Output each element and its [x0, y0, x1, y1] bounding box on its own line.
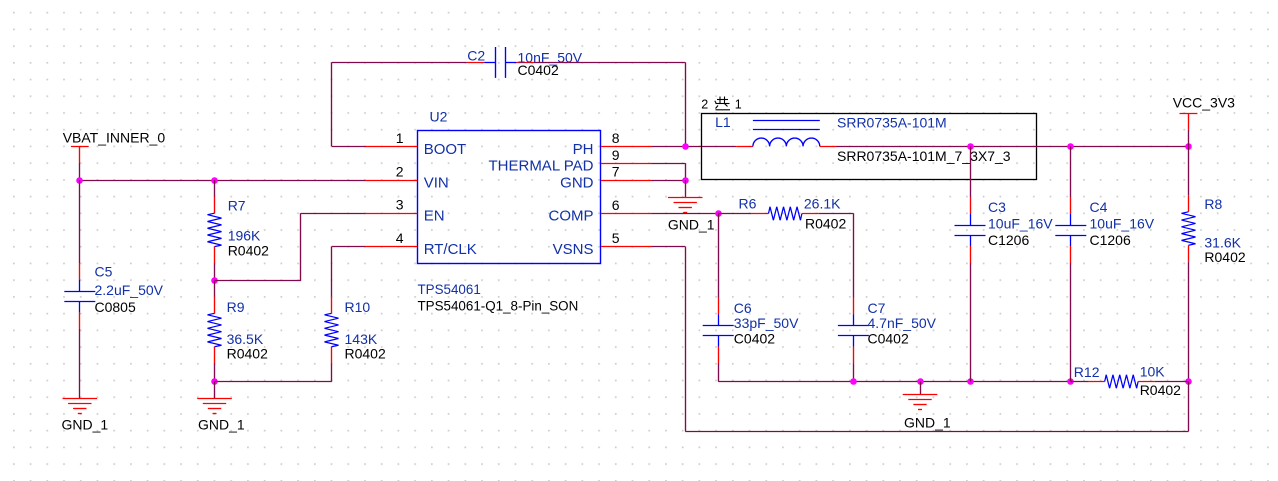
svg-text:TPS54061: TPS54061: [418, 282, 481, 297]
junction: [967, 378, 974, 385]
svg-text:RT/CLK: RT/CLK: [424, 241, 477, 258]
capacitor C3: [955, 197, 1054, 263]
junction: [211, 277, 218, 284]
wire: [853, 364, 855, 382]
wire: [79, 329, 81, 398]
svg-text:2: 2: [396, 163, 404, 179]
pin 3: [366, 197, 418, 214]
pin 1: [366, 130, 418, 147]
wire: [970, 146, 972, 197]
svg-text:R9: R9: [227, 299, 245, 315]
svg-text:COMP: COMP: [549, 208, 594, 225]
svg-text:C0805: C0805: [95, 299, 136, 315]
svg-text:C0402: C0402: [868, 331, 909, 347]
svg-text:C0402: C0402: [518, 62, 559, 78]
wire: [80, 180, 366, 182]
svg-text:3: 3: [396, 197, 404, 213]
wire: [970, 263, 972, 382]
wire: [214, 263, 216, 281]
svg-text:R8: R8: [1204, 196, 1222, 212]
wire: [1155, 381, 1189, 383]
wire: [718, 213, 720, 297]
svg-text:GND: GND: [560, 174, 594, 191]
svg-text:5: 5: [612, 230, 620, 246]
wire: [214, 180, 216, 197]
ground: [197, 399, 245, 433]
wire: [819, 213, 854, 215]
svg-text:C2: C2: [467, 48, 485, 64]
ground: [62, 399, 109, 433]
svg-text:4.7nF_50V: 4.7nF_50V: [868, 315, 937, 331]
svg-text:R0402: R0402: [1204, 249, 1245, 265]
svg-text:EN: EN: [424, 208, 445, 225]
wire: [1070, 146, 1072, 197]
wire: [1188, 262, 1190, 382]
wire: [301, 213, 366, 215]
wire: [534, 62, 685, 64]
capacitor C4: [1055, 197, 1154, 263]
resistor R7: [208, 197, 270, 264]
junction: [76, 177, 83, 184]
svg-text:10uF_16V: 10uF_16V: [1090, 215, 1155, 231]
wire: [685, 247, 687, 432]
pin 2: [366, 163, 418, 180]
svg-text:U2: U2: [430, 109, 448, 125]
ground: [668, 198, 715, 233]
wire: [1070, 263, 1072, 382]
svg-text:R0402: R0402: [228, 242, 269, 258]
wire: [718, 381, 1071, 383]
wire: [332, 246, 366, 248]
power port VBAT_INNER_0: [63, 130, 166, 164]
capacitor C7: [838, 298, 937, 364]
wire: [837, 146, 1189, 148]
svg-text:1: 1: [396, 130, 404, 146]
svg-text:VCC_3V3: VCC_3V3: [1173, 95, 1235, 111]
svg-text:33pF_50V: 33pF_50V: [734, 315, 799, 331]
wire: [685, 163, 687, 180]
capacitor C6: [703, 298, 799, 364]
junction: [917, 378, 924, 385]
wire: [331, 62, 333, 146]
wire: [1188, 146, 1190, 195]
svg-text:R12: R12: [1074, 364, 1100, 380]
svg-text:R0402: R0402: [345, 345, 386, 361]
svg-text:C5: C5: [95, 264, 113, 280]
capacitor C2: [467, 47, 583, 78]
junction: [850, 378, 857, 385]
svg-text:4: 4: [396, 230, 404, 246]
wire: [1071, 381, 1088, 383]
selection box 2-choose-1: [701, 97, 1036, 180]
svg-text:R7: R7: [228, 197, 246, 213]
resistor R9: [208, 297, 269, 364]
svg-text:R0402: R0402: [227, 345, 268, 361]
svg-text:2: 2: [701, 98, 708, 112]
svg-text:SRR0735A-101M: SRR0735A-101M: [837, 115, 947, 131]
svg-text:C1206: C1206: [988, 232, 1029, 248]
svg-text:6: 6: [612, 197, 620, 213]
pin 8: [601, 130, 652, 147]
inductor L1: [715, 114, 1011, 164]
svg-text:SRR0735A-101M_7_3X7_3: SRR0735A-101M_7_3X7_3: [837, 148, 1011, 164]
svg-text:C7: C7: [868, 300, 886, 316]
wire: [718, 364, 720, 382]
svg-text:R6: R6: [739, 196, 757, 212]
svg-text:GND_1: GND_1: [904, 415, 951, 431]
wire: [215, 381, 332, 383]
capacitor C5: [64, 263, 163, 329]
junction: [1185, 378, 1192, 385]
wire: [685, 431, 1188, 433]
wire: [332, 146, 366, 148]
junction: [211, 378, 218, 385]
pin 4: [366, 230, 418, 246]
svg-text:PH: PH: [573, 141, 594, 158]
wire: [79, 180, 81, 263]
wire: [652, 213, 719, 215]
svg-text:10K: 10K: [1140, 364, 1166, 380]
wire: [652, 180, 686, 182]
resistor R6: [739, 196, 847, 232]
wire: [214, 363, 216, 381]
wire: [214, 281, 216, 297]
svg-text:THERMAL PAD: THERMAL PAD: [488, 158, 593, 175]
svg-text:R10: R10: [345, 299, 371, 315]
svg-text:R0402: R0402: [805, 215, 846, 231]
svg-text:GND_1: GND_1: [668, 216, 715, 232]
svg-text:C1206: C1206: [1090, 232, 1131, 248]
svg-text:9: 9: [612, 147, 620, 163]
junction: [682, 177, 689, 184]
wire: [685, 62, 687, 146]
wire: [215, 280, 301, 282]
svg-text:VSNS: VSNS: [553, 241, 594, 258]
svg-text:26.1K: 26.1K: [804, 196, 841, 212]
svg-text:C4: C4: [1090, 199, 1108, 215]
resistor R8: [1182, 195, 1246, 265]
svg-text:8: 8: [612, 130, 620, 146]
junction: [1067, 143, 1074, 150]
wire: [652, 246, 686, 248]
wire: [652, 163, 686, 165]
wire: [652, 146, 737, 148]
ground: [903, 395, 951, 431]
pin 7: [601, 163, 652, 180]
svg-text:7: 7: [612, 163, 620, 179]
wire: [685, 180, 687, 197]
junction: [715, 210, 722, 217]
wire: [79, 163, 81, 180]
svg-text:1: 1: [735, 98, 742, 112]
resistor R12: [1074, 364, 1181, 398]
resistor R10: [325, 297, 386, 364]
wire: [920, 382, 922, 395]
wire: [718, 213, 752, 215]
svg-text:10uF_16V: 10uF_16V: [988, 215, 1053, 231]
junction: [967, 143, 974, 150]
svg-text:TPS54061-Q1_8-Pin_SON: TPS54061-Q1_8-Pin_SON: [418, 298, 579, 313]
wire: [853, 213, 855, 297]
junction: [1067, 378, 1074, 385]
power port VCC_3V3: [1173, 95, 1235, 130]
svg-text:GND_1: GND_1: [198, 417, 245, 433]
svg-text:2.2uF_50V: 2.2uF_50V: [95, 282, 164, 298]
svg-text:C6: C6: [734, 300, 752, 316]
pin 9: [601, 147, 652, 164]
wire: [331, 363, 333, 381]
wire: [214, 382, 216, 399]
pin 5: [601, 230, 652, 247]
svg-text:C3: C3: [988, 199, 1006, 215]
IC U2 TPS54061: [418, 109, 601, 314]
junction: [211, 177, 218, 184]
pin 6: [601, 197, 652, 214]
wire: [1188, 382, 1190, 432]
svg-text:C0402: C0402: [734, 331, 775, 347]
wire: [300, 213, 302, 281]
svg-text:VBAT_INNER_0: VBAT_INNER_0: [63, 130, 166, 146]
svg-text:L1: L1: [715, 114, 731, 130]
svg-text:196K: 196K: [228, 228, 261, 244]
svg-text:R0402: R0402: [1140, 382, 1181, 398]
svg-text:BOOT: BOOT: [424, 141, 467, 158]
junction: [1185, 143, 1192, 150]
wire: [332, 62, 467, 64]
svg-text:GND_1: GND_1: [62, 417, 109, 433]
wire: [1188, 130, 1190, 147]
svg-text:VIN: VIN: [424, 174, 449, 191]
junction: [682, 143, 689, 150]
wire: [331, 247, 333, 297]
